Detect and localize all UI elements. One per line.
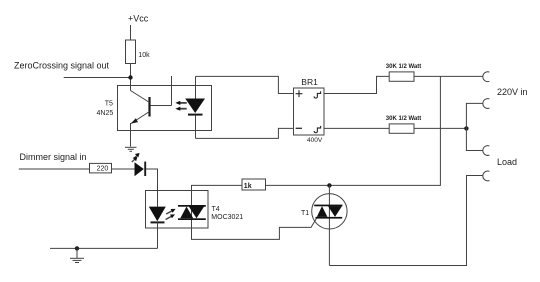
wire T4 triac top to 1k xyxy=(192,185,243,220)
connector Load terminal 1 xyxy=(483,146,490,156)
coupling arrows of T5 (pointing left) xyxy=(175,101,186,111)
wire LED loop top to bridge xyxy=(196,76,294,93)
node ground dot xyxy=(75,246,79,250)
wire junction into triac xyxy=(328,185,330,265)
pin - of BR1 xyxy=(296,127,302,129)
wire dimmer signal in xyxy=(19,168,90,170)
wire Vcc stem xyxy=(130,25,132,40)
triac T1 circle xyxy=(312,194,347,229)
diode D indicator LED xyxy=(135,162,146,177)
wire BR1 - output xyxy=(324,127,389,129)
svg-text:Dimmer signal in: Dimmer signal in xyxy=(20,152,87,162)
svg-text:30K 1/2 Watt: 30K 1/2 Watt xyxy=(386,116,421,122)
wire long vertical live to gate rail xyxy=(329,76,440,185)
wire diode to T4 LED xyxy=(146,169,158,207)
svg-text:400V: 400V xyxy=(307,137,323,144)
svg-text:T1: T1 xyxy=(301,210,309,217)
node junction dot xyxy=(128,75,132,79)
svg-text:4N25: 4N25 xyxy=(97,110,114,117)
opto-coupler U T5 box xyxy=(118,86,212,131)
LED inside T4 xyxy=(149,207,166,249)
svg-text:220: 220 xyxy=(97,165,109,172)
svg-text:1k: 1k xyxy=(244,183,252,190)
resistor 30K top xyxy=(389,72,414,81)
svg-text:Load: Load xyxy=(497,157,517,167)
ground (T5 emitter) xyxy=(125,147,137,151)
coupling arrows of T4 (pointing upper-right) xyxy=(166,209,176,220)
svg-text:MOC3021: MOC3021 xyxy=(211,214,243,221)
svg-text:T5: T5 xyxy=(105,100,113,107)
svg-text:+Vcc: +Vcc xyxy=(128,13,149,23)
triac inside T4 xyxy=(178,205,206,220)
emission arrows of indicator LED xyxy=(132,153,140,162)
LED inside T5 xyxy=(185,76,205,138)
connector Load terminal 2 xyxy=(483,171,490,181)
wire ground rail bottom left xyxy=(50,247,158,249)
wire BR1 + output xyxy=(324,76,389,93)
bridge rectifier BR1 box xyxy=(294,88,325,135)
transistor Q (phototransistor of T5) xyxy=(131,76,172,147)
resistor 1k xyxy=(242,179,266,190)
connector 220V live xyxy=(483,72,490,82)
wire top to 220V live terminal xyxy=(414,75,483,77)
ground (main) xyxy=(70,248,84,262)
wire resistor to node xyxy=(130,64,132,91)
opto-triac U T4 box xyxy=(146,191,209,229)
wire junction to 220V neutral terminal xyxy=(466,103,482,128)
svg-text:10k: 10k xyxy=(138,52,150,59)
svg-text:220V in: 220V in xyxy=(497,87,528,97)
wire to neutral junction xyxy=(414,127,466,129)
wire load terminal 2 down to triac xyxy=(329,176,482,266)
wire T4 triac bottom to gate xyxy=(192,219,317,240)
svg-text:30K 1/2 Watt: 30K 1/2 Watt xyxy=(386,64,421,70)
svg-text:ZeroCrossing signal out: ZeroCrossing signal out xyxy=(14,61,110,71)
resistor 10k xyxy=(126,40,136,64)
resistor 30K bottom xyxy=(389,124,414,133)
wire resistor to diode xyxy=(112,168,135,170)
wire 1k to triac junction xyxy=(266,184,330,186)
node triac top junction dot xyxy=(327,183,331,187)
resistor 220 xyxy=(90,163,112,173)
wire zerocross signal out xyxy=(64,77,131,79)
pin ~ bottom of BR1 xyxy=(314,126,321,133)
triac T1 symbol xyxy=(314,205,342,219)
wire LED loop bottom to bridge xyxy=(196,128,294,138)
svg-text:BR1: BR1 xyxy=(301,77,318,87)
wire junction to load terminal 1 xyxy=(466,128,482,150)
svg-text:T4: T4 xyxy=(212,206,220,213)
node neutral junction dot xyxy=(464,126,468,130)
pin ~ top of BR1 xyxy=(314,91,321,98)
connector 220V neutral xyxy=(483,99,490,109)
pin + of BR1 xyxy=(296,90,303,97)
